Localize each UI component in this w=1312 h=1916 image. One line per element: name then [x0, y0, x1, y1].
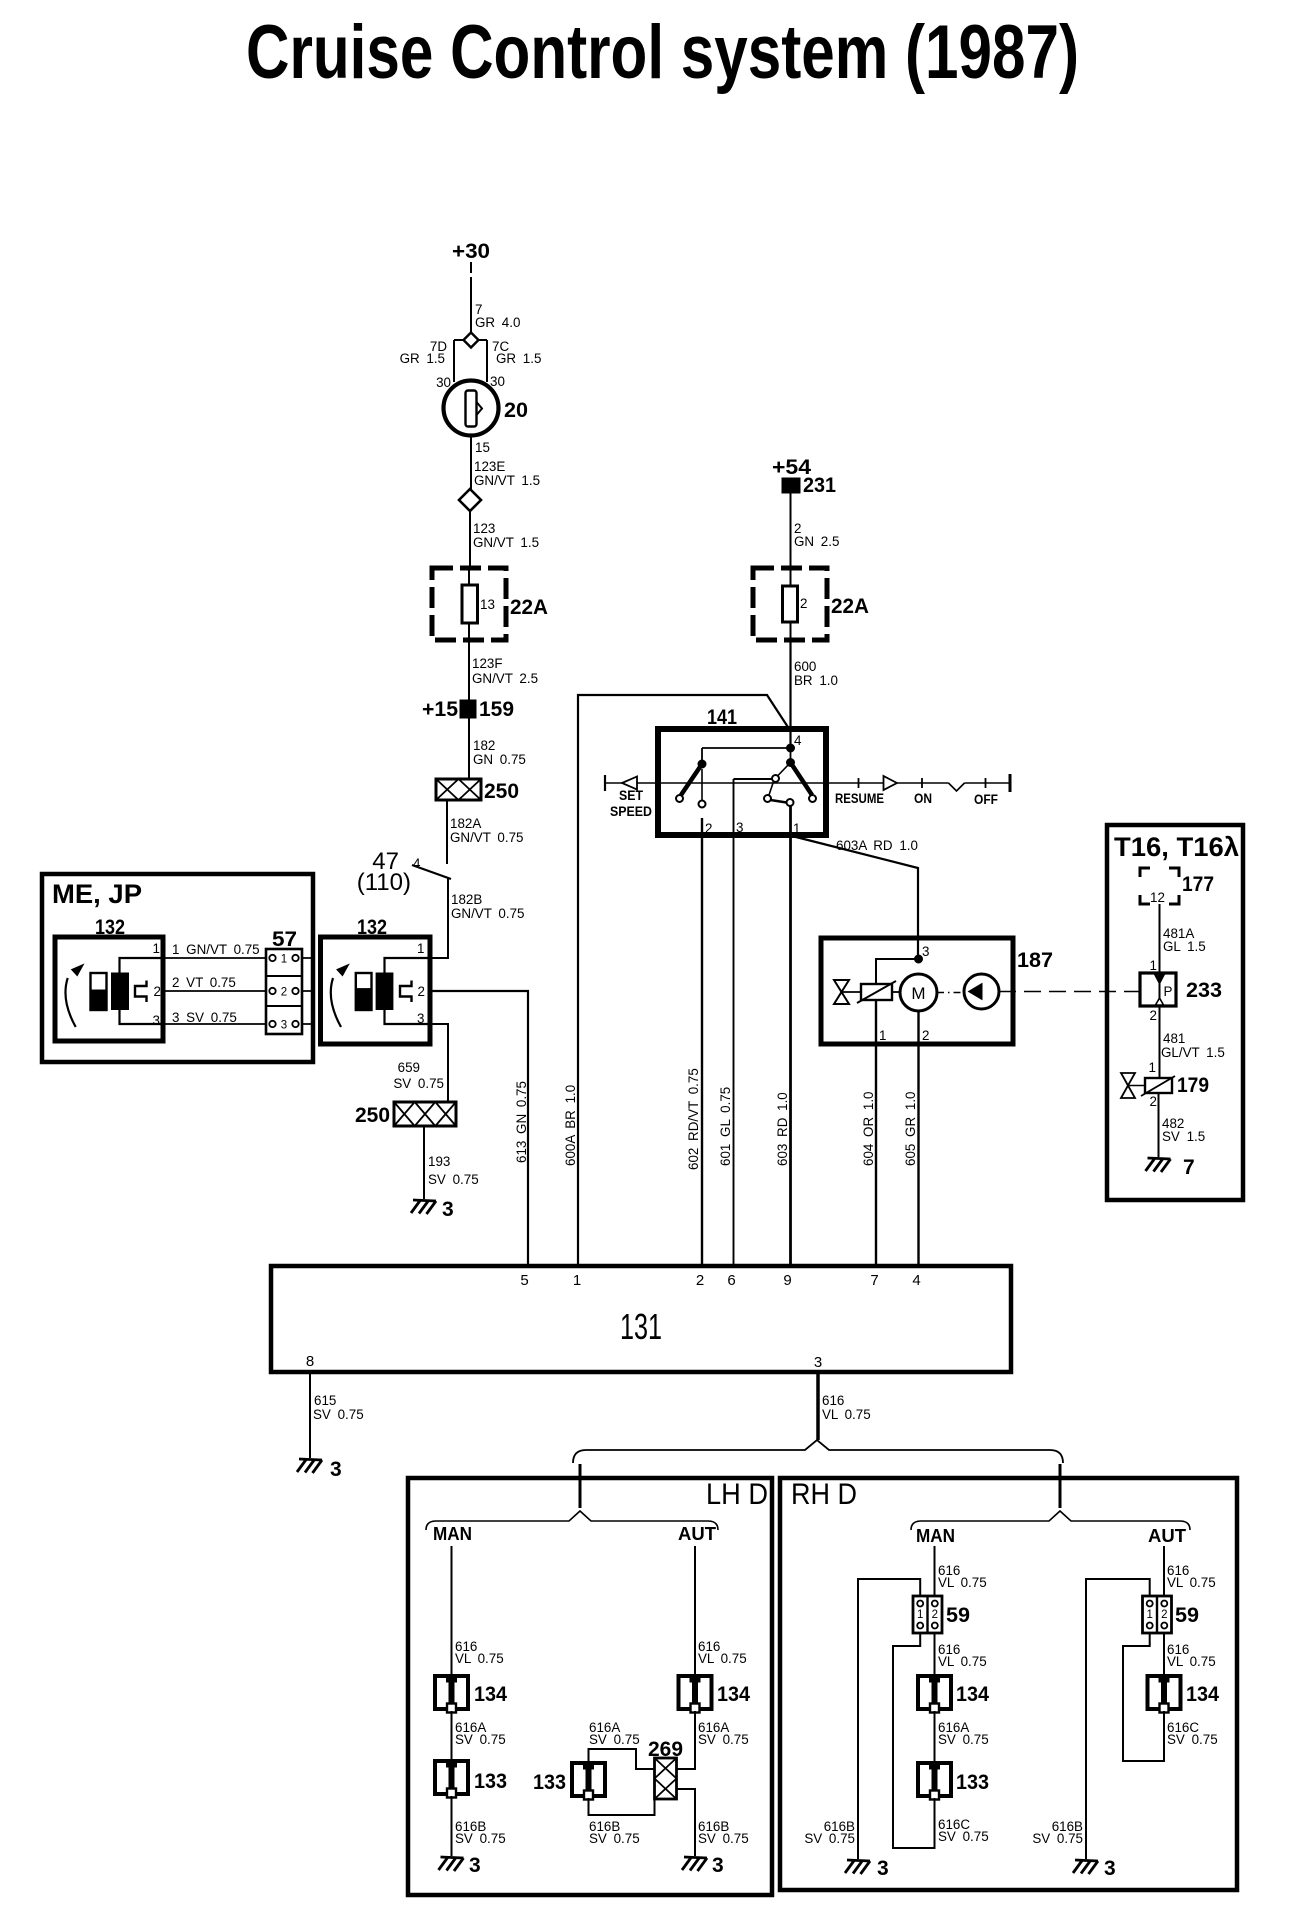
svg-text:+30: +30 [452, 240, 490, 263]
svg-text:SV 1.5: SV 1.5 [1162, 1129, 1205, 1144]
svg-text:8: 8 [306, 1353, 314, 1370]
right hand drive box RH D [780, 1478, 1237, 1890]
terminal 3 of 187 [915, 955, 923, 963]
svg-text:3: 3 [417, 1011, 424, 1026]
terminal 2 wire 605 GR 1.0 to ECU pin 4 [917, 1011, 919, 1266]
svg-text:VL 0.75: VL 0.75 [1167, 1575, 1216, 1590]
svg-text:2: 2 [800, 596, 807, 611]
wire 616C SV 0.75 (RH MAN loop) [893, 1633, 935, 1848]
clutch switch 133 (LH MAN) [435, 1761, 468, 1798]
svg-text:605 GR 1.0: 605 GR 1.0 [903, 1092, 918, 1166]
wire 182B GN/VT 0.75 [430, 878, 448, 958]
svg-text:LH D: LH D [706, 1478, 768, 1511]
svg-text:OFF: OFF [974, 792, 998, 807]
RH MAN/AUT brace [911, 1511, 1190, 1530]
brake switch 134 (LH AUT) [679, 1676, 712, 1713]
svg-text:VL 0.75: VL 0.75 [938, 1654, 987, 1669]
svg-text:3: 3 [922, 944, 929, 959]
svg-text:134: 134 [717, 1683, 750, 1706]
svg-text:VL 0.75: VL 0.75 [455, 1651, 504, 1666]
control unit 177 pin 12 [1140, 868, 1179, 904]
svg-text:133: 133 [533, 1771, 566, 1794]
resume/on/off switch arm [790, 748, 792, 762]
wire 7C GR 1.5 [486, 340, 488, 382]
svg-text:603 RD 1.0: 603 RD 1.0 [775, 1092, 790, 1166]
svg-text:13: 13 [480, 597, 495, 612]
svg-text:133: 133 [956, 1771, 989, 1794]
mechanical link to servo (dashed) [999, 991, 1140, 993]
svg-text:30: 30 [436, 375, 451, 390]
svg-text:57: 57 [272, 928, 297, 951]
wire 2 GN 2.5 [790, 493, 792, 568]
wire 616 VL 0.75 (LH MAN) [451, 1546, 453, 1674]
connector 250 lower [394, 1102, 456, 1126]
wire 7 GR 4.0 from +30 [470, 262, 472, 333]
fuse box 22A left (fuse 13) [468, 568, 470, 640]
svg-text:MAN: MAN [433, 1524, 472, 1544]
svg-text:1 GN/VT 0.75: 1 GN/VT 0.75 [172, 942, 260, 957]
svg-text:M: M [911, 984, 925, 1003]
svg-text:30: 30 [490, 374, 505, 389]
svg-text:659: 659 [398, 1060, 420, 1075]
svg-text:5: 5 [520, 1272, 528, 1289]
mechanical slider line [605, 783, 1010, 791]
svg-text:VL 0.75: VL 0.75 [698, 1651, 747, 1666]
svg-text:613 GN 0.75: 613 GN 0.75 [514, 1081, 529, 1163]
wire 616B SV 0.75 (133 to 269) [589, 1798, 655, 1815]
connector 59 (RH AUT) [1143, 1596, 1172, 1633]
svg-text:603A RD 1.0: 603A RD 1.0 [836, 838, 918, 853]
svg-text:6: 6 [727, 1272, 735, 1289]
svg-text:SET: SET [619, 788, 644, 803]
svg-text:182B: 182B [451, 892, 482, 907]
svg-text:ON: ON [914, 791, 932, 806]
svg-text:1: 1 [917, 1609, 923, 1621]
svg-text:231: 231 [803, 474, 836, 497]
brake switch 134 (RH MAN) [918, 1676, 951, 1713]
wire 616 VL 0.75 (RH AUT lower) [1163, 1633, 1165, 1674]
svg-text:233: 233 [1186, 979, 1222, 1002]
svg-text:3: 3 [877, 1857, 889, 1880]
left hand drive box LH D [408, 1478, 772, 1895]
svg-text:3: 3 [736, 820, 743, 835]
svg-text:133: 133 [474, 1770, 507, 1793]
ground 7 [1146, 1158, 1171, 1172]
svg-text:(110): (110) [357, 869, 411, 896]
svg-text:SV 0.75: SV 0.75 [455, 1831, 506, 1846]
svg-text:AUT: AUT [1148, 1526, 1186, 1546]
svg-text:123E: 123E [474, 459, 505, 474]
svg-text:182: 182 [473, 738, 495, 753]
terminal 1 wire 603 RD 1.0 to ECU pin 9 [789, 806, 792, 1266]
set speed arrow [622, 777, 637, 790]
svg-text:2: 2 [922, 1028, 929, 1043]
wire 616 VL 0.75 (RH MAN lower) [934, 1633, 936, 1674]
svg-text:20: 20 [504, 399, 528, 422]
svg-text:1: 1 [573, 1272, 581, 1289]
solenoid valve element [861, 984, 892, 1000]
svg-text:4: 4 [794, 733, 802, 748]
clutch switch 133 (RH MAN) [918, 1763, 951, 1800]
svg-text:4: 4 [413, 856, 421, 871]
wire 616B SV 0.75 (RH AUT to ground) [1086, 1579, 1150, 1859]
wire 7D GR 1.5 [453, 340, 455, 382]
svg-text:22A: 22A [831, 595, 869, 618]
svg-text:+15: +15 [422, 698, 458, 721]
svg-text:2: 2 [1150, 1008, 1157, 1023]
wire 1 GN/VT 0.75 [163, 957, 266, 959]
wire 613 GN 0.75 to ECU pin 5 [430, 991, 528, 1266]
svg-text:481: 481 [1163, 1031, 1185, 1046]
motor M [900, 974, 937, 1011]
svg-text:134: 134 [474, 1683, 507, 1706]
svg-text:250: 250 [355, 1104, 390, 1127]
resume arrow [884, 776, 898, 790]
svg-text:2: 2 [418, 984, 425, 999]
svg-text:1: 1 [793, 821, 800, 836]
svg-text:3: 3 [814, 1354, 822, 1371]
vacuum pump unit 187 [821, 938, 1013, 1044]
wire 123E GN/VT 1.5 [470, 436, 472, 490]
svg-text:9: 9 [783, 1272, 791, 1289]
svg-text:2: 2 [1150, 1094, 1157, 1109]
svg-text:600A BR 1.0: 600A BR 1.0 [563, 1085, 578, 1166]
svg-text:GN/VT 1.5: GN/VT 1.5 [474, 473, 540, 488]
svg-text:SV 0.75: SV 0.75 [1032, 1831, 1083, 1846]
svg-text:187: 187 [1017, 949, 1053, 972]
fuse box 22A right (fuse 2) [790, 568, 792, 640]
svg-text:1: 1 [1149, 1060, 1156, 1075]
svg-text:15: 15 [475, 440, 490, 455]
svg-text:159: 159 [479, 698, 514, 721]
ground 3 (RH MAN) [845, 1860, 870, 1874]
svg-text:SV 0.75: SV 0.75 [589, 1732, 640, 1747]
svg-text:3: 3 [1104, 1857, 1116, 1880]
internal wire to solenoid [876, 959, 919, 984]
svg-text:AUT: AUT [678, 1524, 716, 1544]
svg-text:123: 123 [473, 521, 495, 536]
transmission variant box T16 [1107, 825, 1243, 1200]
svg-text:2: 2 [696, 1272, 704, 1289]
svg-text:GR 1.5: GR 1.5 [400, 351, 445, 366]
ground 3 (LH AUT) [682, 1857, 707, 1871]
svg-text:VL 0.75: VL 0.75 [822, 1407, 871, 1422]
wire 123 GN/VT 1.5 [469, 511, 471, 568]
wire 3 SV 0.75 [163, 1023, 266, 1025]
vacuum valve symbol [834, 980, 849, 992]
svg-text:134: 134 [1186, 1683, 1219, 1706]
svg-text:1: 1 [1146, 1609, 1152, 1621]
ground 3 (near 250) [411, 1200, 436, 1214]
svg-text:131: 131 [620, 1306, 662, 1347]
wire 616 VL 0.75 (LH AUT) [694, 1546, 696, 1674]
svg-text:GL/VT 1.5: GL/VT 1.5 [1161, 1045, 1225, 1060]
svg-text:GR 4.0: GR 4.0 [475, 315, 520, 330]
svg-text:616: 616 [822, 1393, 844, 1408]
drop to RH brace [1059, 1464, 1062, 1508]
wire 616B SV 0.75 (RH MAN to ground) [858, 1579, 920, 1859]
terminal 1 wire 604 OR 1.0 to ECU pin 7 [875, 1000, 877, 1266]
ME JP variant box [42, 874, 313, 1062]
svg-text:1: 1 [281, 954, 287, 966]
svg-text:141: 141 [707, 706, 737, 729]
connector 59 (RH MAN) [913, 1596, 942, 1633]
svg-text:GR 1.5: GR 1.5 [496, 351, 541, 366]
svg-text:SV 0.75: SV 0.75 [804, 1831, 855, 1846]
svg-text:604 OR 1.0: 604 OR 1.0 [861, 1092, 876, 1166]
svg-text:601 GL 0.75: 601 GL 0.75 [718, 1087, 733, 1166]
svg-text:2: 2 [932, 1609, 938, 1621]
svg-text:2: 2 [281, 987, 287, 999]
terminal 2 wire 602 RD/VT 0.75 to ECU pin 2 [701, 818, 703, 1266]
wire 616C SV 0.75 (RH AUT loop) [1123, 1633, 1164, 1761]
wire 481 GL/VT 1.5 [1159, 1006, 1161, 1078]
svg-text:3: 3 [712, 1854, 724, 1877]
svg-text:134: 134 [956, 1683, 989, 1706]
svg-text:12: 12 [1150, 890, 1165, 905]
svg-text:1: 1 [879, 1028, 886, 1043]
svg-text:SV 0.75: SV 0.75 [1167, 1732, 1218, 1747]
svg-text:ME, JP: ME, JP [52, 879, 142, 909]
svg-text:GN/VT 0.75: GN/VT 0.75 [450, 830, 523, 845]
internal bus from terminal 4 [702, 748, 791, 764]
wire 616A SV 0.75 (LH AUT) [677, 1711, 696, 1769]
wire 616B SV 0.75 (LH AUT to ground) [677, 1789, 696, 1856]
wire 616 VL 0.75 [816, 1372, 820, 1440]
pump [964, 974, 999, 1009]
svg-text:GN/VT 2.5: GN/VT 2.5 [472, 671, 538, 686]
svg-text:GN/VT 1.5: GN/VT 1.5 [473, 535, 539, 550]
connector diamond on wire 123 [459, 489, 481, 511]
wire 615 SV 0.75 [309, 1372, 311, 1458]
svg-text:1: 1 [153, 941, 160, 956]
svg-text:P: P [1164, 984, 1173, 999]
terminal 3 wire 601 GL 0.75 to ECU pin 6 [734, 779, 773, 1266]
brake switch 134 (RH AUT) [1148, 1676, 1181, 1713]
svg-text:SV 0.75: SV 0.75 [393, 1076, 444, 1091]
node +15 terminal 159 [460, 700, 476, 718]
svg-text:3: 3 [153, 1013, 160, 1028]
svg-text:Cruise Control system (1987): Cruise Control system (1987) [246, 10, 1079, 95]
ground 3 (LH MAN) [439, 1857, 464, 1871]
svg-text:123F: 123F [472, 656, 503, 671]
drop to LH brace [579, 1464, 582, 1508]
slider right end stop [1009, 774, 1012, 792]
wire 600 BR 1.0 [789, 640, 791, 748]
svg-text:SV 0.75: SV 0.75 [698, 1831, 749, 1846]
svg-text:1: 1 [417, 941, 424, 956]
mechanical link dashes [937, 992, 964, 994]
terminal 4 of 141 [787, 744, 795, 752]
wire 616A SV 0.75 (RH MAN) [934, 1711, 936, 1761]
stub wires from 57 to box edge [302, 958, 313, 1024]
svg-text:59: 59 [946, 1604, 970, 1627]
svg-text:GN 0.75: GN 0.75 [473, 752, 526, 767]
svg-text:182A: 182A [450, 816, 481, 831]
svg-text:GL 1.5: GL 1.5 [1163, 939, 1206, 954]
svg-text:193: 193 [428, 1154, 450, 1169]
svg-text:2 VT 0.75: 2 VT 0.75 [172, 975, 236, 990]
wire 616 VL 0.75 (RH MAN upper) [934, 1546, 936, 1596]
svg-text:SV 0.75: SV 0.75 [938, 1829, 989, 1844]
svg-text:SPEED: SPEED [610, 804, 652, 819]
brake switch 134 (LH MAN) [435, 1676, 468, 1713]
wire 603A RD 1.0 branch to 187 [792, 836, 918, 959]
svg-text:3: 3 [442, 1198, 454, 1221]
svg-text:SV 0.75: SV 0.75 [455, 1732, 506, 1747]
svg-text:SV 0.75: SV 0.75 [313, 1407, 364, 1422]
wire 2 VT 0.75 [163, 990, 266, 992]
svg-text:GN/VT 0.75: GN/VT 0.75 [451, 906, 524, 921]
svg-text:RESUME: RESUME [835, 791, 884, 806]
slider detents [859, 778, 986, 788]
svg-text:615: 615 [314, 1393, 336, 1408]
svg-text:3 SV 0.75: 3 SV 0.75 [172, 1010, 237, 1025]
svg-text:3: 3 [281, 1020, 287, 1032]
cruise control unit 131 [271, 1266, 1011, 1372]
svg-text:GN 2.5: GN 2.5 [794, 534, 839, 549]
distribution brace for wire 616 [573, 1440, 1063, 1463]
svg-text:7: 7 [870, 1272, 878, 1289]
svg-text:4: 4 [912, 1272, 920, 1289]
svg-text:2: 2 [154, 984, 161, 999]
svg-text:MAN: MAN [916, 1526, 955, 1546]
svg-text:250: 250 [484, 780, 519, 803]
connector 250 upper [436, 779, 481, 800]
wire 616A SV 0.75 (LH MAN) [451, 1711, 453, 1759]
wire 600A BR 1.0 branch to ECU pin 1 [578, 695, 791, 1266]
wire 616B SV 0.75 (LH MAN) [451, 1796, 453, 1856]
wire 123F GN/VT 2.5 [468, 640, 470, 779]
svg-text:179: 179 [1177, 1074, 1209, 1097]
svg-text:SV 0.75: SV 0.75 [589, 1831, 640, 1846]
wire 616A SV 0.75 (to 269) [589, 1749, 655, 1769]
svg-text:3: 3 [330, 1458, 342, 1481]
svg-text:22A: 22A [510, 596, 548, 619]
svg-text:SV 0.75: SV 0.75 [428, 1172, 479, 1187]
svg-text:600: 600 [794, 659, 816, 674]
svg-text:2: 2 [1161, 1609, 1167, 1621]
ground 3 (RH AUT) [1073, 1860, 1098, 1874]
junction bar to branches 7D / 7C [454, 339, 487, 341]
svg-text:3: 3 [469, 1854, 481, 1877]
ignition switch 20 [444, 381, 499, 436]
svg-text:VL 0.75: VL 0.75 [938, 1575, 987, 1590]
connector 47 (110) pin 4 [412, 865, 451, 879]
wire 659 SV 0.75 [430, 1024, 448, 1102]
wire 182A GN/VT 0.75 [446, 800, 448, 864]
svg-text:177: 177 [1182, 873, 1214, 896]
clutch switch 133 (LH AUT variant) [572, 1763, 605, 1800]
svg-text:1: 1 [1150, 958, 1157, 973]
set-speed switch arm [698, 760, 706, 768]
svg-text:BR 1.0: BR 1.0 [794, 673, 838, 688]
slider left end stop [604, 775, 606, 791]
connector diamond on wire 7 [464, 333, 479, 348]
wire 616 VL 0.75 (RH AUT upper) [1163, 1546, 1165, 1596]
svg-text:602 RD/VT 0.75: 602 RD/VT 0.75 [686, 1068, 701, 1170]
svg-text:SV 0.75: SV 0.75 [698, 1732, 749, 1747]
svg-text:VL 0.75: VL 0.75 [1167, 1654, 1216, 1669]
svg-text:2: 2 [705, 821, 712, 836]
wire 193 SV 0.75 [423, 1126, 425, 1199]
svg-text:SV 0.75: SV 0.75 [938, 1732, 989, 1747]
svg-text:59: 59 [1175, 1604, 1199, 1627]
LH MAN/AUT brace [426, 1511, 718, 1530]
svg-text:T16, T16λ: T16, T16λ [1114, 832, 1239, 862]
wire 481A GL 1.5 [1159, 904, 1161, 973]
svg-text:RH D: RH D [791, 1478, 857, 1511]
ground 3 (ECU pin 8) [297, 1459, 322, 1473]
wire 482 SV 1.5 [1158, 1093, 1160, 1157]
svg-text:7: 7 [1183, 1156, 1195, 1179]
